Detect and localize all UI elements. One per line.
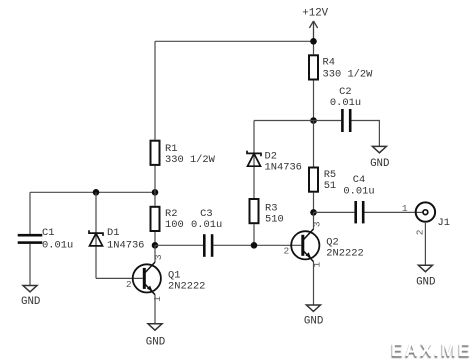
svg-text:100: 100	[165, 219, 184, 231]
capacitor C4	[354, 201, 364, 223]
transistor Q1 2N2222	[133, 245, 161, 323]
connector J1	[416, 202, 435, 221]
diode D2 1N4736 zener	[247, 151, 261, 167]
wire D2 branch vertical	[253, 121, 255, 199]
wire +12V node to R4	[313, 41, 315, 54]
svg-text:330 1/2W: 330 1/2W	[165, 154, 216, 166]
svg-text:2: 2	[126, 279, 132, 290]
svg-text:D1: D1	[107, 227, 119, 239]
svg-text:+12V: +12V	[302, 7, 328, 19]
wire node A to C2	[314, 120, 342, 122]
svg-text:0.01u: 0.01u	[330, 97, 361, 109]
wire R5 to node C	[313, 193, 315, 213]
capacitor C2	[341, 109, 351, 132]
svg-text:2: 2	[414, 229, 425, 235]
svg-text:1: 1	[312, 261, 323, 267]
svg-text:GND: GND	[304, 316, 323, 328]
wire node A to D2 branch	[254, 120, 314, 122]
svg-text:510: 510	[265, 214, 284, 226]
wire C2 to ground	[352, 121, 380, 147]
wire top rail horizontal	[155, 40, 314, 42]
svg-text:C4: C4	[353, 174, 365, 186]
node B junction	[251, 242, 258, 249]
ground (Q2)	[306, 305, 320, 311]
svg-text:2: 2	[283, 246, 289, 257]
svg-text:1: 1	[402, 203, 408, 214]
node E junction	[152, 242, 159, 249]
node +12V junction	[310, 38, 317, 45]
svg-text:1N4736: 1N4736	[107, 240, 144, 252]
svg-text:GND: GND	[416, 277, 435, 289]
ground (C2)	[372, 146, 386, 152]
node R1/R2 junction	[152, 189, 159, 196]
node C junction	[310, 209, 317, 216]
ground (J1)	[418, 265, 432, 271]
wire R1 to R2	[154, 166, 156, 206]
svg-text:EAX.ME: EAX.ME	[391, 340, 472, 360]
svg-text:1N4736: 1N4736	[265, 162, 302, 174]
resistor R5	[309, 168, 318, 192]
wire left rail horizontal	[30, 191, 155, 193]
node D1 junction	[93, 189, 100, 196]
ground (Q1)	[148, 324, 162, 330]
node A junction	[310, 117, 317, 124]
wire node E to C3	[155, 244, 203, 246]
svg-text:1: 1	[152, 296, 163, 302]
capacitor C1	[18, 234, 43, 244]
svg-text:2N2222: 2N2222	[168, 281, 205, 293]
wire J1 pin2 to ground	[424, 222, 426, 265]
svg-text:0.01u: 0.01u	[42, 239, 73, 251]
ground (C1)	[23, 286, 37, 292]
wire D1 to Q1 base	[96, 277, 143, 279]
svg-text:3: 3	[153, 254, 164, 260]
svg-text:R4: R4	[323, 57, 335, 69]
wire node A to R5	[313, 121, 315, 167]
svg-text:51: 51	[324, 180, 336, 192]
wire rail down to R1	[154, 41, 156, 139]
resistor R3	[250, 199, 259, 223]
svg-text:2N2222: 2N2222	[326, 248, 363, 260]
wire R3 to base node B	[253, 224, 255, 245]
transistor Q2 2N2222	[291, 212, 319, 305]
resistor R2	[151, 207, 160, 231]
svg-text:0.01u: 0.01u	[343, 186, 374, 198]
svg-text:GND: GND	[21, 296, 40, 308]
wire C1 to ground	[29, 244, 31, 286]
svg-text:GND: GND	[370, 158, 389, 170]
svg-text:330 1/2W: 330 1/2W	[323, 68, 374, 80]
wire R2 to node E	[154, 232, 156, 245]
wire C4 to J1 pin 1	[365, 211, 424, 213]
resistor R1	[151, 141, 160, 165]
wire node C to C4	[314, 211, 355, 213]
svg-text:0.01u: 0.01u	[191, 219, 222, 231]
capacitor C3	[203, 234, 213, 257]
wire D1 branch vertical	[95, 192, 97, 278]
svg-text:J1: J1	[438, 217, 450, 229]
wire down to C1	[29, 192, 31, 234]
wire R4 to node A	[313, 81, 315, 121]
wire C3 to Q2 base	[213, 244, 301, 246]
svg-text:C1: C1	[42, 227, 54, 239]
svg-text:3: 3	[312, 221, 323, 227]
resistor R4	[309, 55, 318, 79]
diode D1 1N4736 zener	[89, 230, 103, 246]
power flag +12V arrow	[309, 21, 317, 41]
svg-text:GND: GND	[146, 336, 165, 348]
